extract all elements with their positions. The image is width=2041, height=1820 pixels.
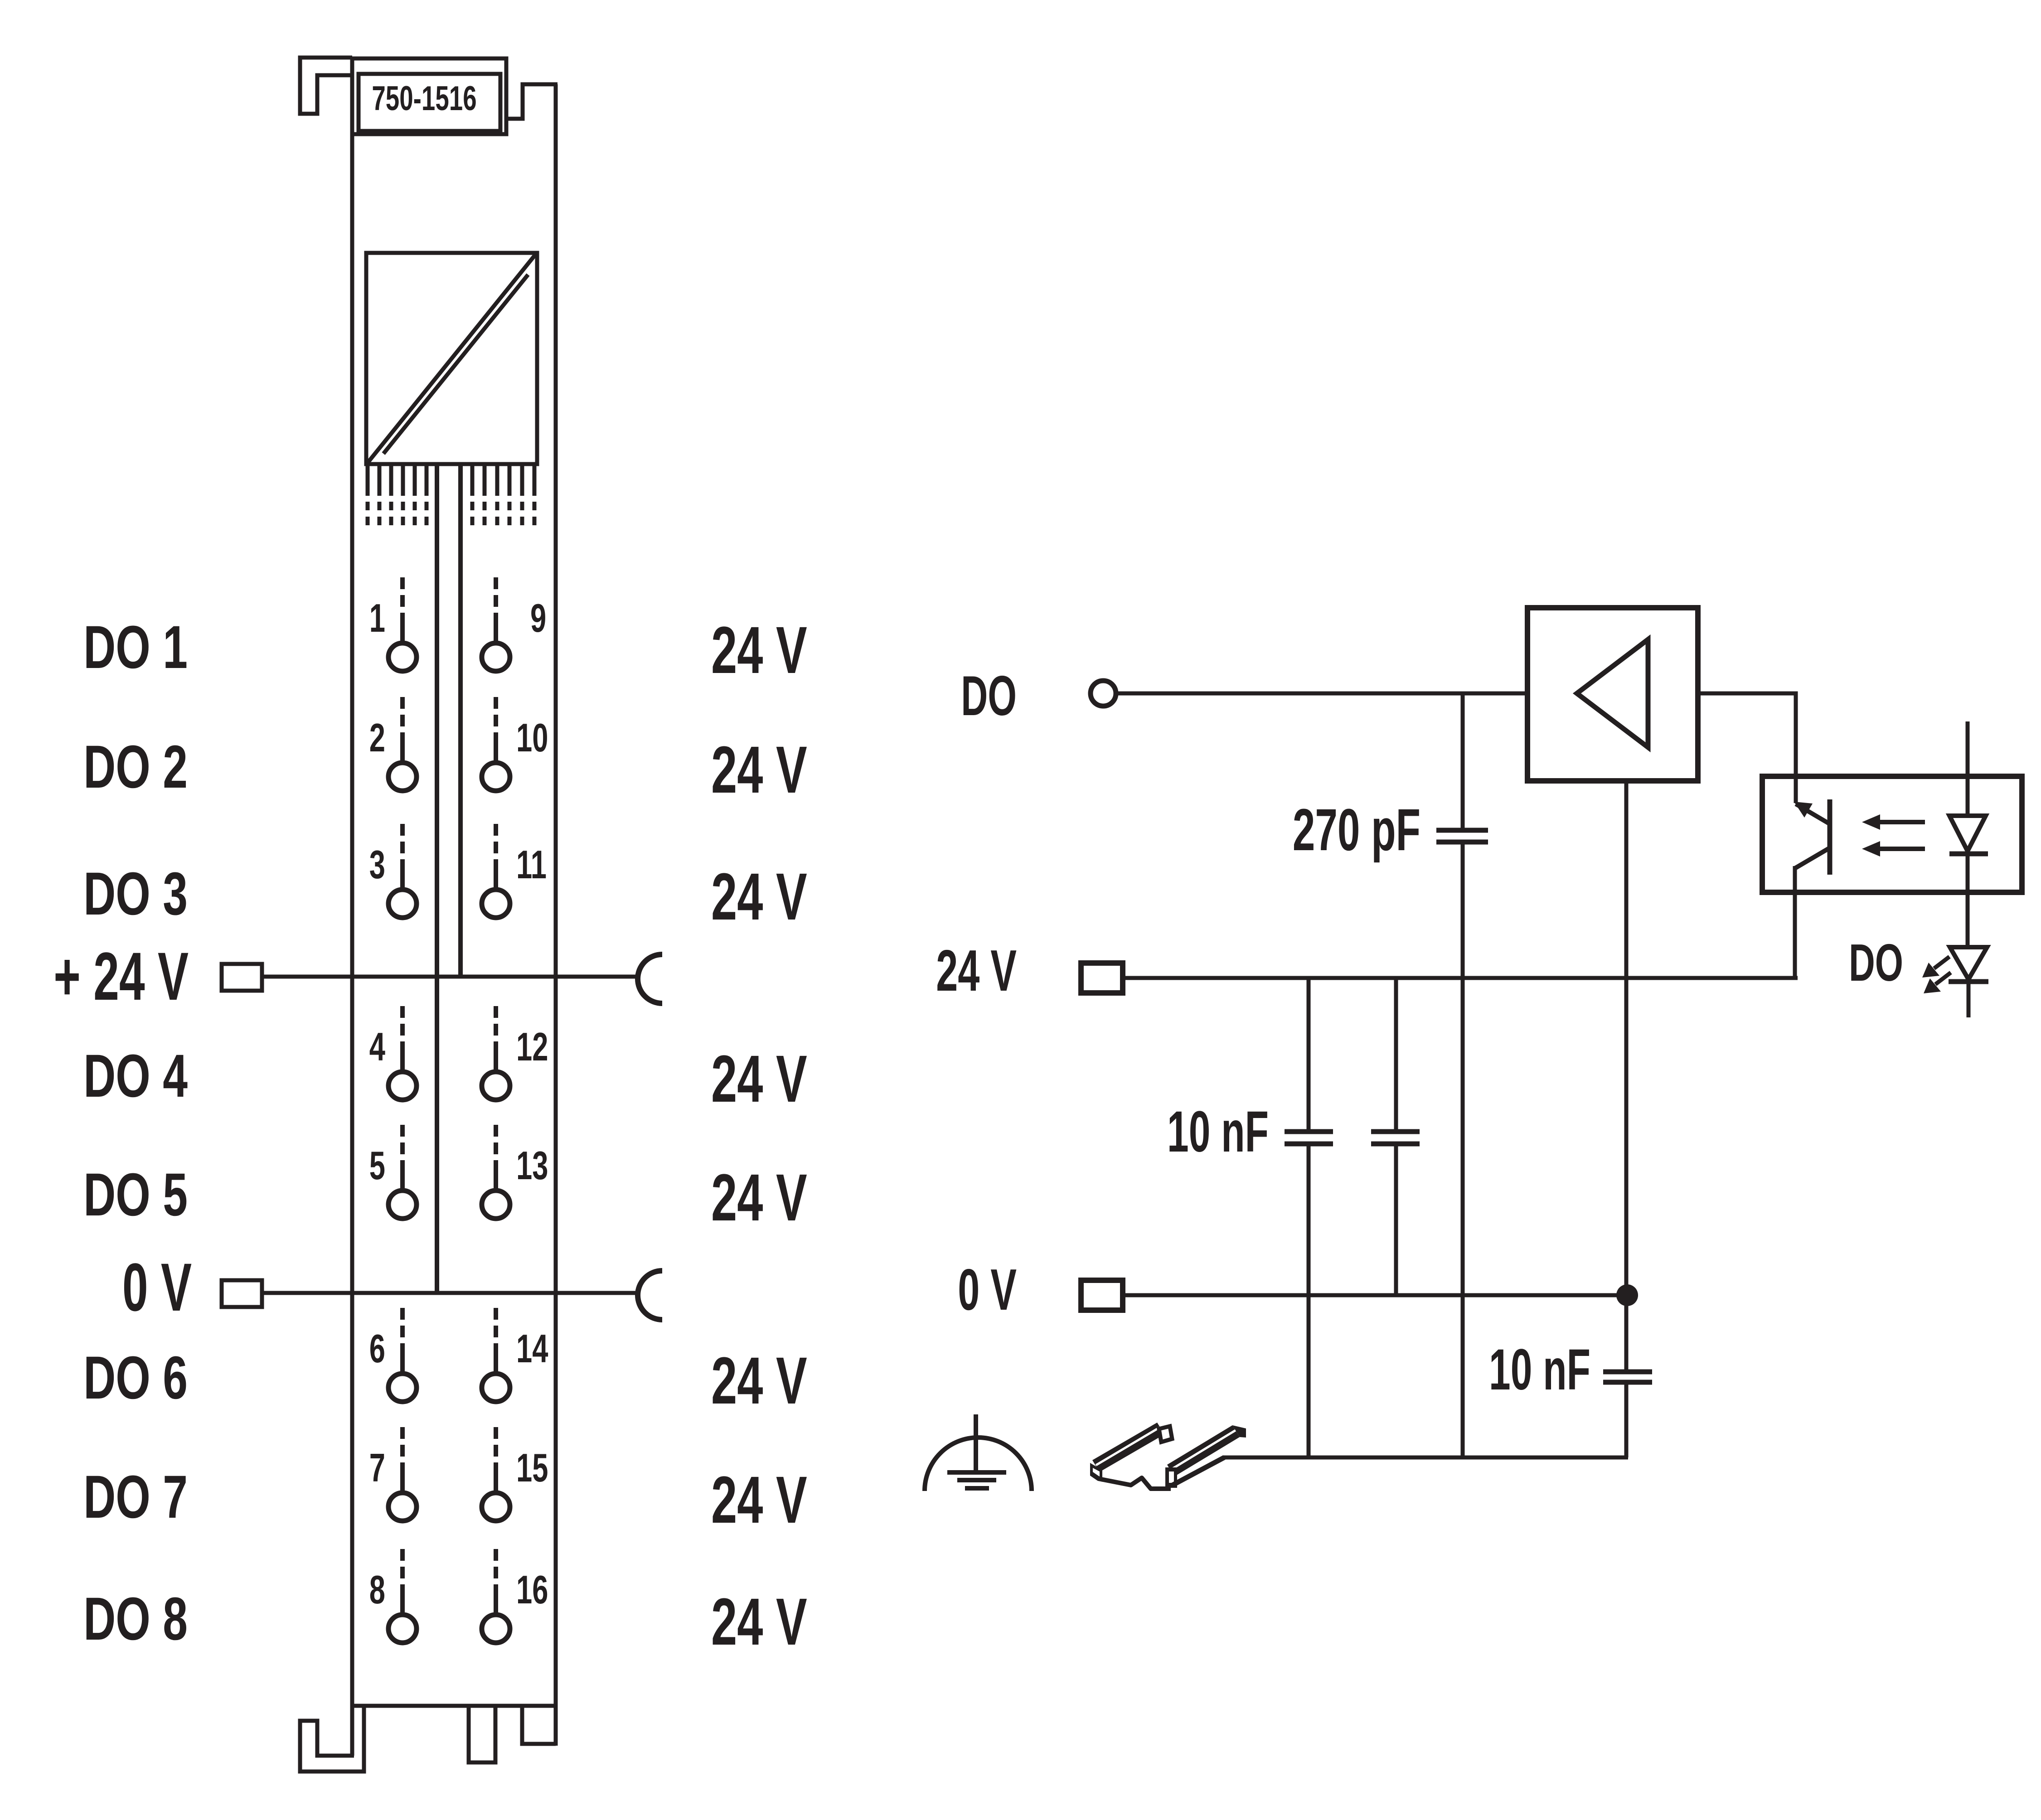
svg-text:DO 3: DO 3	[83, 860, 188, 927]
wire 24V line	[1123, 976, 1798, 980]
svg-text:DO 6: DO 6	[83, 1344, 188, 1411]
svg-text:DO 4: DO 4	[83, 1042, 188, 1109]
capacitor 10nF #1	[1307, 978, 1311, 1132]
connector comb teeth	[366, 464, 370, 496]
svg-text:0 V: 0 V	[958, 1258, 1017, 1322]
power converter symbol second diagonal	[383, 275, 528, 454]
contact circle pin 12	[482, 1072, 510, 1100]
svg-text:16: 16	[516, 1568, 548, 1612]
contact circle pin 16	[482, 1615, 510, 1643]
contact circle pin 11	[482, 890, 510, 918]
svg-text:8: 8	[369, 1568, 385, 1612]
contact circle pin 5	[388, 1191, 417, 1219]
wire +24V feed line	[262, 975, 640, 979]
terminal circle DO	[1091, 681, 1116, 706]
svg-text:10 nF: 10 nF	[1489, 1337, 1590, 1402]
svg-text:13: 13	[516, 1144, 548, 1188]
svg-text:24 V: 24 V	[711, 859, 807, 934]
power converter symbol box	[366, 253, 537, 464]
clamp arc +24V	[638, 954, 662, 1003]
status LED cathode bar	[1949, 979, 1988, 984]
terminal box 0V right	[1081, 1280, 1123, 1310]
optocoupler box U2	[1762, 776, 2022, 892]
power converter symbol diagonal	[368, 255, 535, 462]
svg-text:15: 15	[516, 1446, 548, 1491]
status LED lightning arrow 2	[1935, 973, 1951, 984]
dashed stem pin 10	[494, 732, 498, 761]
status LED lightning arrow 1	[1934, 957, 1949, 968]
wire amplifier bottom pin	[1624, 781, 1629, 1295]
wire module left edge	[350, 58, 354, 1756]
svg-text:24 V: 24 V	[711, 613, 807, 687]
wire amplifier output	[1698, 693, 1796, 803]
dashed stem pin 11	[494, 859, 498, 888]
dashed stem pin 2	[400, 732, 405, 761]
svg-text:6: 6	[369, 1327, 385, 1371]
contact circle pin 1	[388, 643, 417, 671]
capacitor 10nF #3	[1624, 1295, 1629, 1372]
terminal box +24V	[222, 964, 262, 991]
wire 0V feed line	[262, 1291, 640, 1295]
svg-text:5: 5	[369, 1144, 385, 1188]
svg-text:DO 5: DO 5	[83, 1161, 188, 1228]
wire DO to amplifier	[1116, 692, 1527, 696]
dashed stem pin 15	[494, 1462, 498, 1491]
svg-text:DO 7: DO 7	[83, 1463, 188, 1530]
svg-text:3: 3	[369, 843, 385, 887]
svg-text:24 V: 24 V	[711, 1160, 807, 1235]
label box outer frame 750-1516	[352, 58, 506, 134]
svg-text:1: 1	[369, 596, 385, 641]
wire LED link	[1966, 854, 1970, 947]
contact circle pin 14	[482, 1374, 510, 1402]
dashed stem pin 7	[400, 1462, 405, 1491]
ground symbol bar 2	[957, 1478, 996, 1482]
svg-text:11: 11	[516, 843, 547, 887]
module top-right step contour	[506, 84, 558, 119]
terminal box 0V	[222, 1280, 262, 1307]
dashed stem pin 14	[494, 1343, 498, 1372]
svg-text:DO 2: DO 2	[83, 733, 188, 800]
opto LED triangle	[1949, 816, 1986, 851]
wire LED anode stub	[1966, 721, 1970, 816]
svg-text:+ 24 V: + 24 V	[53, 939, 189, 1015]
dashed stem pin 9	[494, 613, 498, 642]
wire module right edge	[554, 84, 558, 1746]
svg-text:24 V: 24 V	[711, 1584, 807, 1659]
svg-text:4: 4	[369, 1025, 386, 1070]
status LED triangle	[1950, 947, 1987, 979]
amplifier triangle	[1577, 639, 1648, 747]
capacitor 10nF #2	[1394, 978, 1398, 1132]
dashed stem pin 5	[400, 1160, 405, 1189]
svg-text:24 V: 24 V	[936, 939, 1017, 1003]
svg-text:10 nF: 10 nF	[1167, 1099, 1269, 1164]
module bottom-left rail hook	[300, 1706, 364, 1772]
dashed stem pin 12	[494, 1041, 498, 1070]
dashed stem pin 8	[400, 1584, 405, 1613]
contact circle pin 4	[388, 1072, 417, 1100]
svg-text:24 V: 24 V	[711, 732, 807, 807]
dashed stem pin 1	[400, 613, 405, 642]
contact circle pin 15	[482, 1493, 510, 1521]
ground symbol stem	[974, 1414, 978, 1473]
module middle foot	[469, 1706, 495, 1762]
wire 0V line	[1123, 1293, 1627, 1297]
light arrow upper	[1879, 820, 1925, 824]
svg-text:DO 8: DO 8	[83, 1585, 188, 1652]
contact circle pin 3	[388, 890, 417, 918]
contact circle pin 8	[388, 1615, 417, 1643]
wire 0V internal rail	[435, 464, 439, 1293]
contact circle pin 10	[482, 763, 510, 791]
phototransistor collector with arrow	[1796, 804, 1829, 823]
svg-text:24 V: 24 V	[711, 1462, 807, 1537]
terminal box 24V right	[1081, 963, 1123, 993]
svg-text:DO: DO	[1849, 934, 1903, 992]
svg-text:7: 7	[369, 1446, 385, 1491]
contact circle pin 13	[482, 1191, 510, 1219]
ground symbol bar 3	[965, 1486, 989, 1491]
dashed stem pin 13	[494, 1160, 498, 1189]
clamp arc 0V	[638, 1271, 662, 1320]
contact circle pin 2	[388, 763, 417, 791]
wire module bottom edge	[350, 1704, 558, 1708]
label box inner frame 750-1516	[359, 74, 500, 131]
DIN rail icon	[1092, 1423, 1164, 1472]
svg-text:2: 2	[369, 716, 385, 760]
svg-text:24 V: 24 V	[711, 1041, 807, 1116]
contact circle pin 9	[482, 643, 510, 671]
dashed stem pin 4	[400, 1041, 405, 1070]
svg-text:12: 12	[516, 1025, 548, 1070]
contact circle pin 7	[388, 1493, 417, 1521]
svg-text:750-1516: 750-1516	[372, 79, 476, 118]
opto LED cathode bar	[1949, 852, 1988, 857]
wire functional earth line	[1223, 1456, 1628, 1460]
svg-text:14: 14	[516, 1327, 548, 1371]
svg-text:10: 10	[516, 716, 548, 760]
wire 24V internal rail	[458, 464, 463, 977]
amplifier box U1	[1527, 608, 1698, 781]
svg-text:DO: DO	[961, 665, 1017, 727]
module top-left mounting hook	[300, 58, 352, 114]
dashed stem pin 16	[494, 1584, 498, 1613]
junction node 0V	[1616, 1284, 1638, 1306]
phototransistor base bar	[1828, 799, 1833, 875]
svg-text:270 pF: 270 pF	[1293, 797, 1420, 863]
phototransistor emitter	[1795, 848, 1829, 868]
dashed stem pin 6	[400, 1343, 405, 1372]
svg-text:0 V: 0 V	[122, 1250, 192, 1326]
capacitor 270pF	[1461, 693, 1465, 830]
light arrow lower	[1879, 847, 1925, 851]
ground symbol arc	[925, 1438, 1032, 1491]
contact circle pin 6	[388, 1374, 417, 1402]
ground symbol bar 1	[947, 1470, 1006, 1475]
svg-text:24 V: 24 V	[711, 1343, 807, 1418]
wire emitter down to 24V line	[1793, 866, 1797, 978]
module right foot	[522, 1706, 556, 1744]
dashed stem pin 3	[400, 859, 405, 888]
svg-text:DO 1: DO 1	[83, 613, 188, 681]
svg-text:9: 9	[530, 596, 546, 641]
wire LED bottom stub	[1967, 982, 1971, 1017]
